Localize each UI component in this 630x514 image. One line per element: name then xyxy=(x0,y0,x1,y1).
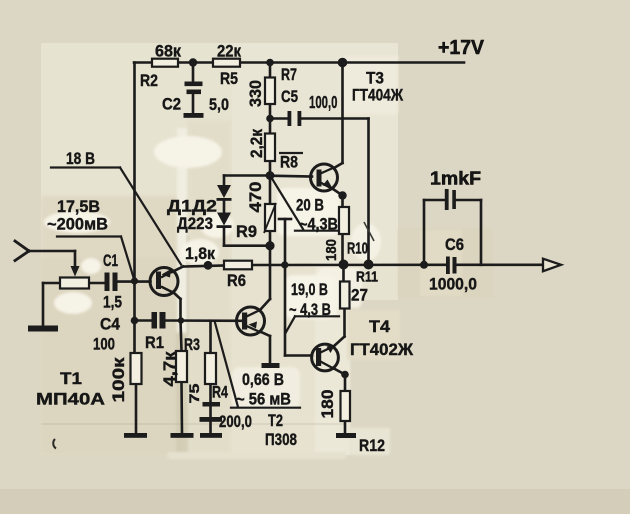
svg-text:П308: П308 xyxy=(265,431,297,449)
svg-text:R11: R11 xyxy=(356,269,378,286)
svg-text:17,5В: 17,5В xyxy=(57,198,100,216)
svg-text:100: 100 xyxy=(93,336,115,354)
svg-text:ГТ404Ж: ГТ404Ж xyxy=(352,87,403,105)
svg-text:100к: 100к xyxy=(110,357,128,403)
svg-text:1,8к: 1,8к xyxy=(185,245,216,263)
svg-text:Д1Д2: Д1Д2 xyxy=(167,198,217,216)
svg-text:4,7к: 4,7к xyxy=(161,351,179,387)
svg-text:R12: R12 xyxy=(359,437,385,455)
svg-text:180: 180 xyxy=(323,239,340,261)
svg-text:20 В: 20 В xyxy=(296,197,324,215)
svg-text:Т4: Т4 xyxy=(369,318,391,336)
svg-text:~200мВ: ~200мВ xyxy=(47,216,108,234)
svg-text:R8: R8 xyxy=(280,154,298,172)
svg-text:2,2к: 2,2к xyxy=(248,128,266,158)
svg-text:~ 56 мВ: ~ 56 мВ xyxy=(236,391,291,409)
svg-text:С5: С5 xyxy=(281,88,298,106)
svg-text:0,66 В: 0,66 В xyxy=(242,371,284,389)
svg-text:1000,0: 1000,0 xyxy=(429,276,477,294)
svg-text:Д223: Д223 xyxy=(177,215,213,233)
svg-text:180: 180 xyxy=(319,390,337,419)
svg-text:18 В: 18 В xyxy=(66,150,95,168)
svg-text:R9: R9 xyxy=(236,223,257,241)
svg-text:19,0 В: 19,0 В xyxy=(291,281,328,299)
svg-text:R10: R10 xyxy=(347,241,368,258)
svg-text:100,0: 100,0 xyxy=(309,92,338,112)
svg-text:330: 330 xyxy=(247,80,265,107)
svg-text:R4: R4 xyxy=(212,384,229,402)
svg-text:22к: 22к xyxy=(217,43,242,61)
svg-text:R5: R5 xyxy=(220,70,238,88)
svg-text:R3: R3 xyxy=(184,336,200,354)
svg-text:27: 27 xyxy=(351,287,368,305)
svg-text:R1: R1 xyxy=(145,334,164,352)
svg-text:С6: С6 xyxy=(445,236,464,254)
svg-text:5,0: 5,0 xyxy=(209,96,229,114)
svg-text:Т2: Т2 xyxy=(268,412,283,430)
svg-text:С4: С4 xyxy=(100,316,121,334)
svg-text:75: 75 xyxy=(186,383,202,403)
svg-text:1,5: 1,5 xyxy=(103,294,122,312)
svg-text:R2: R2 xyxy=(140,72,158,90)
svg-text:R7: R7 xyxy=(281,66,297,84)
svg-text:R6: R6 xyxy=(227,272,246,290)
svg-text:~4,3В: ~4,3В xyxy=(299,216,338,234)
svg-text:Т3: Т3 xyxy=(366,70,384,88)
svg-text:470: 470 xyxy=(247,182,265,213)
svg-text:+17V: +17V xyxy=(438,37,485,59)
svg-text:200,0: 200,0 xyxy=(219,413,252,431)
svg-text:1mkF: 1mkF xyxy=(430,169,481,189)
svg-text:С1: С1 xyxy=(103,252,118,270)
svg-text:ГТ402Ж: ГТ402Ж xyxy=(350,341,413,359)
svg-text:МП40А: МП40А xyxy=(36,391,105,409)
svg-text:68к: 68к xyxy=(155,43,182,61)
svg-text:Т1: Т1 xyxy=(60,370,82,388)
svg-text:С2: С2 xyxy=(162,96,181,114)
svg-text:~ 4,3 В: ~ 4,3 В xyxy=(289,301,331,319)
